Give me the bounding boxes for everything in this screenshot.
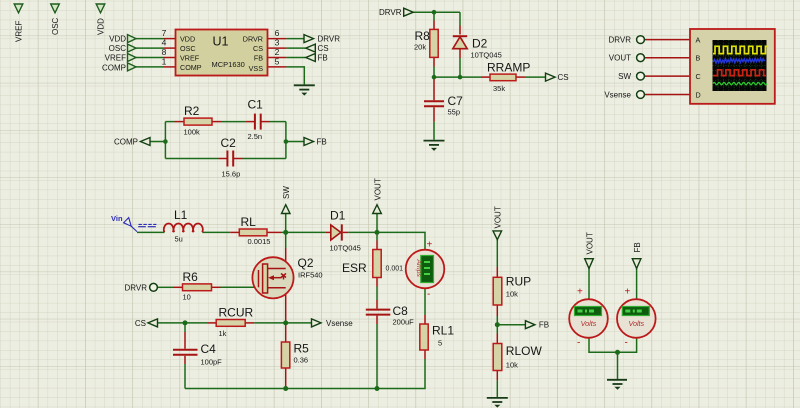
svg-text:CS: CS [135,319,146,328]
svg-text:OSC: OSC [180,44,196,53]
svg-text:FB: FB [317,138,327,147]
svg-text:3: 3 [275,38,280,48]
svg-text:100pF: 100pF [201,358,223,367]
svg-text:+: + [625,287,631,298]
svg-text:C1: C1 [248,98,264,112]
svg-text:5: 5 [275,56,280,66]
svg-text:R6: R6 [183,270,199,284]
svg-text:RLOW: RLOW [506,344,543,358]
svg-text:VREF: VREF [105,54,126,63]
svg-text:CS: CS [318,44,329,53]
svg-text:0.0015: 0.0015 [248,237,271,246]
svg-text:RRAMP: RRAMP [487,61,530,75]
svg-text:200uF: 200uF [393,318,415,327]
svg-text:MCP1630: MCP1630 [212,60,245,69]
svg-text:VOUT: VOUT [609,54,631,63]
svg-text:0.36: 0.36 [294,356,309,365]
svg-text:35k: 35k [493,84,505,93]
svg-text:D: D [696,91,701,100]
svg-text:FB: FB [254,54,263,63]
svg-text:0.001: 0.001 [386,266,404,273]
svg-text:5: 5 [438,339,442,348]
svg-text:DRVR: DRVR [243,35,263,44]
svg-text:FB: FB [539,321,549,330]
svg-text:C: C [696,72,701,81]
svg-text:7: 7 [162,28,167,38]
svg-text:VDD: VDD [109,35,126,44]
svg-text:R2: R2 [184,104,200,118]
svg-text:CS: CS [558,73,569,82]
svg-text:Q2: Q2 [298,256,314,270]
svg-text:FB: FB [318,54,328,63]
svg-text:L1: L1 [174,208,188,222]
svg-text:20k: 20k [414,43,426,52]
svg-text:VSS: VSS [249,64,264,73]
svg-text:COMP: COMP [102,63,126,72]
svg-text:5u: 5u [175,235,183,244]
svg-text:DRVR: DRVR [124,283,147,292]
svg-text:RL1: RL1 [432,324,454,338]
svg-text:4: 4 [162,38,167,48]
svg-text:B: B [696,54,701,63]
svg-text:+: + [427,240,433,251]
svg-text:D1: D1 [330,209,346,223]
svg-text:D2: D2 [472,37,488,51]
svg-text:Vsense: Vsense [326,319,353,328]
svg-text:Amps: Amps [415,259,422,278]
svg-text:10TQ045: 10TQ045 [471,51,502,60]
svg-text:Vin: Vin [111,214,123,223]
svg-text:FB: FB [633,242,642,252]
svg-text:1k: 1k [219,329,227,338]
svg-text:VREF: VREF [180,54,200,63]
svg-text:Volts: Volts [581,319,597,328]
svg-text:DRVR: DRVR [379,8,402,17]
svg-text:C2: C2 [221,136,237,150]
svg-text:+: + [577,287,583,298]
svg-text:C8: C8 [393,304,409,318]
svg-text:DRVR: DRVR [318,35,341,44]
svg-text:SW: SW [618,72,631,81]
svg-text:6: 6 [275,28,280,38]
svg-text:C7: C7 [448,94,464,108]
svg-text:100k: 100k [184,128,201,137]
svg-text:1: 1 [162,56,167,66]
svg-text:R5: R5 [294,342,310,356]
svg-text:-: - [577,338,580,349]
svg-text:A: A [696,36,701,45]
svg-text:VDD: VDD [180,35,195,44]
svg-text:SW: SW [282,186,291,199]
svg-text:OSC: OSC [51,17,60,35]
svg-text:U1: U1 [213,35,229,49]
svg-text:Volts: Volts [628,319,644,328]
svg-text:IRF540: IRF540 [298,271,323,280]
svg-text:-: - [625,338,628,349]
svg-text:2.5n: 2.5n [248,132,263,141]
svg-text:10: 10 [183,293,191,302]
svg-text:RL: RL [241,215,257,229]
svg-text:R8: R8 [415,29,431,43]
svg-text:10k: 10k [506,290,518,299]
svg-text:55p: 55p [448,108,461,117]
svg-text:DRVR: DRVR [608,36,631,45]
svg-text:VOUT: VOUT [494,206,503,228]
svg-text:RUP: RUP [506,275,531,289]
svg-text:COMP: COMP [114,138,138,147]
svg-text:10TQ045: 10TQ045 [330,244,361,253]
svg-text:ESR: ESR [342,261,367,275]
svg-text:VOUT: VOUT [586,232,595,254]
svg-text:Vsense: Vsense [604,91,631,100]
svg-text:15.6p: 15.6p [222,170,241,179]
svg-text:RCUR: RCUR [219,306,254,320]
svg-text:-: - [427,289,430,300]
svg-text:VOUT: VOUT [374,178,383,200]
svg-text:C4: C4 [201,342,217,356]
svg-text:VREF: VREF [15,21,24,42]
svg-text:10k: 10k [506,361,518,370]
svg-text:CS: CS [253,44,263,53]
svg-text:OSC: OSC [109,44,127,53]
svg-text:COMP: COMP [180,63,202,72]
svg-text:VDD: VDD [97,18,106,35]
